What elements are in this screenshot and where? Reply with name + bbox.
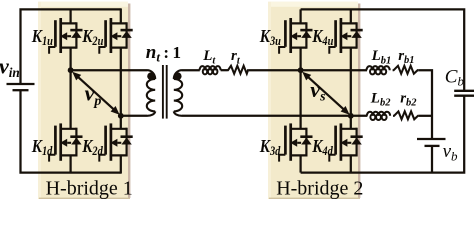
inductor Lb2 xyxy=(367,112,390,120)
transistor Q K2u xyxy=(99,18,132,54)
transistor Q K1d xyxy=(49,123,82,161)
transformer T1 secondary winding xyxy=(174,70,182,116)
resistor rb2 xyxy=(393,111,419,119)
transistor Q K4u xyxy=(329,18,362,54)
wire bridge2 vs+ across leg K4 to Lb1 xyxy=(301,69,367,71)
H-bridge 1 highlight box xyxy=(38,2,130,199)
wire leg K1 mid xyxy=(69,48,71,129)
wire leg K2 bottom stub xyxy=(120,155,122,173)
node vs- junction dot xyxy=(348,113,354,119)
svg-text:H-bridge 1: H-bridge 1 xyxy=(46,177,133,199)
wire bottom rail bridge 2 to right rail xyxy=(301,96,465,173)
wire vb to bottom rail xyxy=(431,146,433,173)
wire leg K4 mid xyxy=(350,48,352,129)
wire leg K3 mid xyxy=(299,48,301,129)
transistor Q K1u xyxy=(49,18,82,54)
svg-text:nt : 1: nt : 1 xyxy=(146,42,181,64)
inductor Lb1 xyxy=(367,66,390,74)
wire Lt to rt xyxy=(221,69,228,71)
wire leg K3 top stub xyxy=(299,9,301,23)
battery vb xyxy=(417,139,446,146)
wire leg K4 bottom stub xyxy=(350,155,352,172)
svg-text:H-bridge 2: H-bridge 2 xyxy=(276,177,363,199)
wire top rail bridge 1 with vin branch xyxy=(21,9,121,84)
wire leg K1 bottom stub xyxy=(69,155,71,172)
wire rb1 to battery branch corner xyxy=(418,70,432,139)
arrow vs (bridge 2 ac voltage) xyxy=(302,72,349,115)
H-bridge 2 highlight box xyxy=(268,2,360,199)
wire transformer secondary bottom to leg K4 xyxy=(182,115,351,117)
transformer T1 primary winding xyxy=(147,70,155,116)
transformer T1 core xyxy=(163,65,167,119)
transistor Q K3d xyxy=(279,123,312,161)
transistor Q K3u xyxy=(279,18,312,54)
arrow vp (bridge 1 ac voltage) xyxy=(72,72,119,115)
wire node vp+ to transformer primary top xyxy=(71,69,147,71)
node vp+ junction dot xyxy=(68,67,74,73)
wire rt to bridge 2 node vs+ xyxy=(249,69,301,71)
wire leg K2 top stub xyxy=(120,8,122,23)
wire transformer secondary top to Lt xyxy=(182,69,200,71)
wire leg K4 top stub xyxy=(350,9,352,23)
wire leg K2 mid xyxy=(120,48,122,129)
wire leg K3 bottom stub xyxy=(299,155,301,172)
resistor rb1 xyxy=(393,66,419,74)
node vp- junction dot xyxy=(118,113,124,119)
wire rb2 to battery branch xyxy=(419,115,433,117)
wire node vp- to transformer primary bottom xyxy=(121,115,147,117)
resistor rt xyxy=(227,66,249,74)
transformer T1 secondary polarity dot xyxy=(174,72,182,80)
transistor Q K2d xyxy=(99,123,132,161)
wire leg K4 node to Lb2 xyxy=(351,115,368,117)
transformer T1 primary polarity dot xyxy=(147,72,155,80)
battery vin xyxy=(7,84,35,90)
wire top rail bridge 2 to right rail xyxy=(301,9,465,90)
wire bottom rail bridge 1 with vin branch xyxy=(21,90,121,173)
transistor Q K4d xyxy=(329,123,362,161)
capacitor Cb xyxy=(454,91,474,96)
inductor Lt xyxy=(200,66,221,74)
node vs+ junction dot xyxy=(298,67,304,73)
wire leg K1 top stub xyxy=(69,9,71,23)
